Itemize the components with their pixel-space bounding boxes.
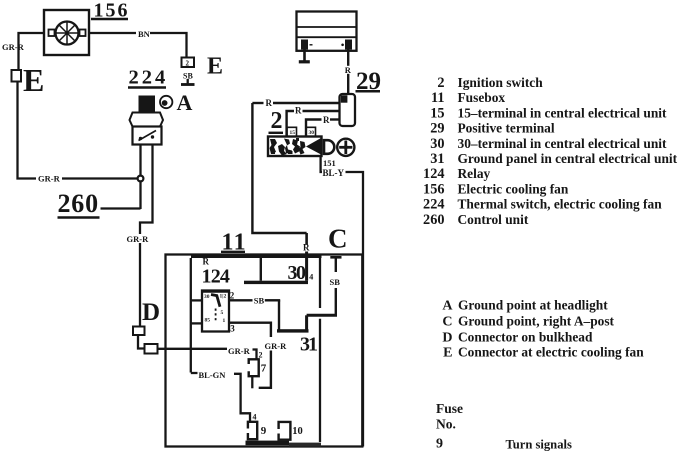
junction node on GR-R wire [138,176,144,182]
30 terminal bar [244,281,308,284]
svg-text:15: 15 [290,130,296,136]
ignition switch key arrow [306,138,321,155]
svg-text:R: R [266,98,273,108]
svg-text:GR-R: GR-R [127,234,150,244]
svg-text:E: E [443,346,452,361]
svg-text:Control unit: Control unit [458,212,529,227]
fuse 10 [279,422,291,440]
svg-text:Positive terminal: Positive terminal [458,121,555,136]
ground point C symbol [335,258,337,272]
ground point symbol at A [160,96,172,108]
wire relay pin 3 to fuse 7 bottom [229,323,271,337]
svg-text:3: 3 [230,324,235,334]
battery [297,12,357,51]
svg-text:Turn signals: Turn signals [506,438,572,452]
svg-text:9: 9 [261,425,267,437]
svg-text:30: 30 [430,136,444,152]
ignition key cylinder [337,139,354,156]
fuse 7 bottom stub [251,376,253,388]
wire D box1 to box2 [138,335,145,349]
wire bus to 30 bar [260,258,262,281]
svg-text:1: 1 [223,318,226,324]
svg-text:D: D [442,331,452,346]
wire relay left bracket [190,258,192,373]
svg-text:5: 5 [221,310,224,316]
svg-text:31: 31 [300,334,317,356]
svg-text:30–terminal in central electri: 30–terminal in central electrical unit [458,136,668,151]
wire 260 to switch [101,207,141,209]
svg-text:260: 260 [423,212,444,228]
connector E right box pin 2 [182,58,195,68]
bus bar top of fusebox [191,254,322,258]
svg-text:2: 2 [230,291,235,301]
fan spokes [56,22,79,45]
fuse table [436,401,572,452]
svg-text:Connector on bulkhead: Connector on bulkhead [458,330,593,345]
fuse 7 [249,359,259,376]
wire E down to GR-R horizontal [18,82,37,179]
svg-text:124: 124 [202,266,230,288]
wire R1 to 29 [252,102,263,104]
svg-text:Ground point, right A–post: Ground point, right A–post [458,314,615,329]
connector D box 2 [145,344,158,354]
svg-text:9: 9 [436,436,443,451]
svg-text:Relay: Relay [458,166,491,181]
svg-text:A: A [442,299,453,314]
svg-text:31: 31 [430,151,444,167]
svg-text:4: 4 [253,413,257,422]
svg-text:7: 7 [261,363,267,375]
wire SB down to ground bar 31 [278,300,280,330]
thermal switch nut [130,113,164,127]
ignition pin box 30 [306,127,316,136]
svg-text:15–terminal in central electri: 15–terminal in central electrical unit [458,105,668,120]
svg-text:10: 10 [292,426,303,437]
svg-text:30: 30 [309,130,315,136]
relay coil dashed link [215,309,217,323]
ground at fan connector [187,79,189,84]
wire D to fuse 7 [158,348,228,350]
fan terminal left [49,30,55,37]
svg-text:GR-R: GR-R [265,341,288,351]
wire SB from relay pin 2 [229,299,253,301]
ignition switch 2 body [268,137,322,157]
svg-text:224: 224 [129,67,169,89]
thermal switch contacts [139,137,142,140]
svg-text:GR-R: GR-R [38,174,61,184]
svg-text:GR-R: GR-R [228,346,251,356]
fan motor circle [56,22,79,45]
wire BL-GN from relay [191,372,198,374]
svg-text:BL-Y: BL-Y [323,168,345,178]
fuse 9 [248,422,257,439]
label 29 underline [356,90,381,93]
svg-text:Fusebox: Fusebox [458,90,506,105]
wire switch left pin down [139,145,141,210]
battery plus dot [341,44,344,47]
battery ground [303,50,306,62]
wire GR-R horizontal [62,177,138,179]
wire bus right side down [319,258,321,308]
svg-text:A: A [177,90,193,115]
relay contact flap [211,295,220,307]
svg-text:No.: No. [436,417,456,432]
svg-text:Ground point at headlight: Ground point at headlight [458,298,608,313]
svg-text:2: 2 [271,108,283,134]
svg-text:Ignition switch: Ignition switch [458,75,544,90]
svg-text:30: 30 [288,262,307,284]
label 224 underline [128,86,166,88]
svg-text:C: C [442,315,452,330]
fusebox 11 outline [166,255,363,447]
svg-text:E: E [23,62,44,98]
svg-text:224: 224 [423,197,444,213]
svg-text:BN: BN [138,29,151,39]
svg-text:30: 30 [204,294,210,300]
svg-text:SB: SB [254,295,265,305]
wire fan to right BN [89,32,136,34]
wire R2 to ignition 15 [287,111,294,137]
svg-text:260: 260 [58,189,99,218]
ignition pin box 15 [287,127,297,136]
wire fan to left [19,33,45,70]
svg-text:BL-GN: BL-GN [199,370,227,380]
svg-text:D: D [142,299,160,326]
svg-text:Ground panel in central electr: Ground panel in central electrical unit [458,151,678,166]
label 11 underline [221,251,245,253]
ground point legend [442,298,644,361]
wire switch right pin down jog [140,145,153,235]
legend list [423,75,678,228]
svg-text:R: R [323,115,330,125]
fan terminal right [80,30,86,37]
fuse ground bar under fuse 10 [289,443,321,447]
svg-text:2: 2 [437,75,444,91]
svg-text:1|2: 1|2 [220,294,227,300]
svg-text:4: 4 [309,273,313,282]
svg-text:15: 15 [430,105,444,121]
svg-text:151: 151 [323,158,336,168]
positive terminal 29 block [340,94,356,126]
wire step from C ground to 31 bar [335,288,337,315]
svg-text:SB: SB [330,277,341,287]
ignition switch D shape [324,140,334,154]
svg-text:Electric cooling fan: Electric cooling fan [458,181,569,196]
svg-text:R: R [345,65,352,75]
relay 124 box [202,291,229,332]
fuse ground bar under fuse 9 [246,441,290,446]
svg-text:Fuse: Fuse [436,401,463,416]
connector E left box [12,70,22,82]
battery negative terminal [301,40,308,50]
wire battery plus to 29 [347,50,349,66]
svg-text:11: 11 [431,90,445,106]
battery positive terminal [345,40,352,50]
svg-text:2: 2 [186,60,190,68]
battery minus mark [310,44,313,46]
label 156 underline [91,18,128,20]
thermal switch 224 threaded top [139,96,156,114]
svg-text:156: 156 [423,181,444,197]
svg-text:R: R [295,106,302,116]
svg-text:E: E [207,54,223,80]
ignition switch hatch blobs [270,138,306,156]
svg-text:85: 85 [205,318,211,324]
svg-text:Thermal switch, electric cooli: Thermal switch, electric cooling fan [458,197,663,212]
wire R from 29 into fusebox [252,103,306,233]
wire R3 to ignition 30 [306,120,322,137]
svg-text:GR-R: GR-R [2,42,25,52]
connector D box 1 [133,327,145,336]
svg-text:29: 29 [430,121,444,137]
label 260 underline [58,216,100,218]
svg-text:Connector at electric cooling: Connector at electric cooling fan [458,345,644,360]
ground bar 31 [277,329,309,332]
pin 151 mark [319,160,321,167]
wire BL-Y from ignition [321,156,322,172]
svg-text:R: R [303,243,310,253]
thermal switch body [133,127,162,145]
electric cooling fan 156 box [44,10,89,55]
svg-text:124: 124 [423,166,444,182]
svg-text:C: C [328,224,348,254]
